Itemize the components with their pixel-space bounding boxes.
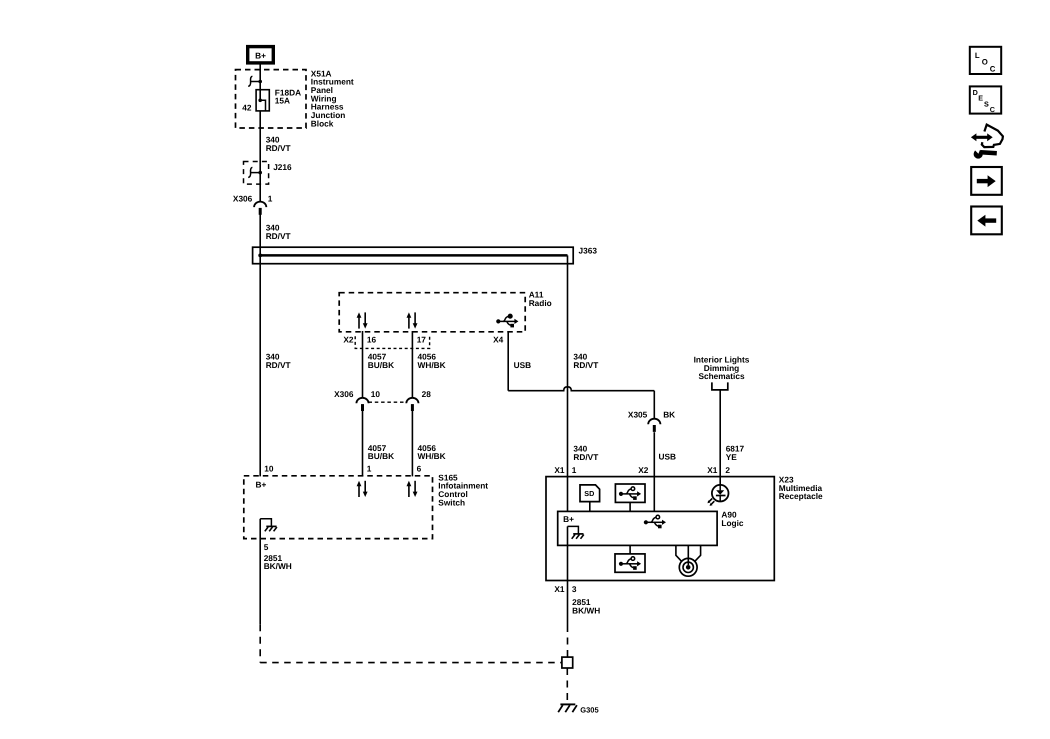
svg-text:5: 5 [264, 542, 269, 552]
svg-text:X305: X305 [628, 410, 648, 420]
svg-text:B+: B+ [255, 50, 266, 60]
wire J363 to X23 pin X1-1 [567, 255, 569, 511]
svg-text:X306: X306 [233, 193, 253, 203]
A11 data arrows pin 16 [357, 312, 368, 328]
svg-text:O: O [982, 58, 988, 67]
svg-text:1: 1 [268, 193, 273, 203]
A90 ground hook [568, 526, 579, 533]
svg-text:S: S [984, 99, 989, 108]
svg-text:J216: J216 [273, 162, 292, 172]
A11 data arrows pin 17 [407, 312, 418, 328]
svg-text:A11Radio: A11Radio [529, 290, 552, 308]
svg-text:4057BU/BK: 4057BU/BK [368, 352, 394, 370]
wire dimming to LED [719, 390, 721, 485]
svg-text:J363: J363 [579, 246, 598, 256]
icon connector tool [971, 125, 1003, 159]
splice J216 dashed box [244, 162, 269, 185]
svg-text:USB: USB [659, 452, 677, 462]
icon arrow left box [971, 207, 1002, 235]
wire A11-16 to X306-10 [362, 331, 364, 398]
fuse clip terminal [248, 76, 262, 86]
infotainment switch S165 dashed box [244, 476, 433, 539]
wire USB horizontal with hop over 340 wire [508, 387, 654, 391]
svg-text:F18DA15A: F18DA15A [275, 87, 301, 105]
svg-text:2851BK/WH: 2851BK/WH [264, 553, 292, 571]
svg-text:X2: X2 [343, 335, 354, 345]
fuse F18DA 15A [256, 90, 269, 111]
connector X306 dashed link [369, 401, 408, 403]
svg-text:E: E [978, 94, 983, 103]
connector X306 pin 1 [254, 202, 266, 215]
wire X305 to X23 pin X2 [653, 432, 655, 511]
LED indicator [708, 485, 729, 506]
svg-text:6817YE: 6817YE [726, 444, 745, 462]
svg-text:340RD/VT: 340RD/VT [266, 223, 291, 241]
svg-text:340RD/VT: 340RD/VT [266, 352, 291, 370]
svg-text:D: D [973, 88, 978, 97]
svg-text:USB: USB [514, 360, 532, 370]
splice J216 clip [248, 167, 262, 177]
svg-text:S165InfotainmentControlSwitch: S165InfotainmentControlSwitch [438, 472, 488, 507]
svg-text:2851BK/WH: 2851BK/WH [572, 597, 600, 615]
svg-text:B+: B+ [256, 479, 267, 489]
radio A11 dashed box [339, 293, 525, 332]
wire X306-1 to J363 [259, 214, 261, 476]
svg-text:2: 2 [725, 465, 730, 475]
connector X306 pin 28 [406, 398, 418, 411]
wire X306-28 to S165 pin 6 [411, 411, 413, 477]
USB port top [615, 484, 645, 511]
svg-text:X1: X1 [707, 465, 718, 475]
svg-text:17: 17 [417, 335, 427, 345]
svg-text:4057BU/BK: 4057BU/BK [368, 443, 394, 461]
wire B+ to fuse F18DA [259, 64, 261, 101]
icon LOC box [970, 47, 1001, 74]
svg-text:X1: X1 [554, 465, 565, 475]
svg-text:4056WH/BK: 4056WH/BK [418, 443, 446, 461]
svg-text:1: 1 [367, 464, 372, 474]
USB port bottom [615, 545, 645, 572]
junction block X51A dashed box [236, 70, 307, 128]
icon DESC box [970, 86, 1001, 114]
connector X306 pin 10 [356, 398, 368, 411]
svg-text:4056WH/BK: 4056WH/BK [418, 352, 446, 370]
wire X1-3 dashed to splice square [567, 625, 569, 657]
wire USB down to X305 [653, 391, 655, 420]
multimedia receptacle X23 box [546, 477, 774, 581]
svg-text:340RD/VT: 340RD/VT [573, 444, 598, 462]
S165 chassis ground [265, 526, 277, 531]
svg-text:X4: X4 [493, 335, 504, 345]
icon arrow right box [971, 167, 1002, 195]
svg-text:C: C [990, 64, 996, 73]
S165 ground hook [260, 519, 271, 526]
svg-text:A90Logic: A90Logic [721, 510, 744, 528]
S165 data arrows pin 6 [407, 481, 418, 497]
ground G305 [558, 704, 577, 712]
svg-text:X1: X1 [554, 584, 565, 594]
svg-text:1: 1 [572, 465, 577, 475]
svg-text:3: 3 [572, 584, 577, 594]
aux jack [676, 545, 701, 576]
wire fuse to connector X306 pin 1 [259, 111, 261, 202]
svg-text:10: 10 [264, 464, 274, 474]
svg-text:C: C [990, 105, 995, 114]
splice square [562, 657, 573, 668]
wire A90 ground to pin X1-3 [567, 526, 569, 625]
svg-text:BK: BK [663, 410, 675, 420]
A90 USB symbol [644, 515, 666, 528]
B+ battery feed terminal [248, 47, 274, 63]
wire A11-X4 USB down [507, 331, 509, 391]
svg-text:340RD/VT: 340RD/VT [573, 352, 598, 370]
wire X306-10 to S165 pin 1 [362, 411, 364, 477]
svg-text:L: L [975, 51, 980, 60]
wire dashed horizontal to splice [260, 662, 562, 664]
svg-text:X51AInstrumentPanelWiringHarne: X51AInstrumentPanelWiringHarnessJunction… [311, 68, 354, 128]
S165 data arrows pin 1 [357, 481, 368, 497]
off-page bracket [712, 382, 728, 390]
svg-text:Interior LightsDimmingSchemati: Interior LightsDimmingSchematics [694, 355, 750, 382]
svg-text:SD: SD [584, 489, 594, 498]
svg-text:G305: G305 [580, 705, 598, 714]
svg-text:B+: B+ [563, 514, 574, 524]
svg-text:16: 16 [367, 335, 377, 345]
splice pack J363 bus bar [260, 254, 567, 257]
junction dot J363 left [258, 254, 262, 258]
svg-text:X2: X2 [638, 465, 649, 475]
A11 USB symbol [496, 314, 518, 327]
svg-text:42: 42 [242, 102, 252, 112]
wire splice to G305 dashed [566, 668, 568, 701]
wire A11-17 to X306-28 [411, 331, 413, 398]
splice pack J363 box [253, 247, 574, 264]
connector X305 [648, 419, 660, 432]
logic module A90 box [558, 511, 717, 545]
A90 chassis ground [572, 534, 584, 539]
wire pin 5 dashed down [259, 624, 261, 662]
svg-text:X306: X306 [334, 389, 354, 399]
svg-text:28: 28 [422, 389, 432, 399]
wire S165 ground to pin 5 [259, 519, 261, 624]
SD card slot [580, 485, 600, 512]
svg-text:X23MultimediaReceptacle: X23MultimediaReceptacle [779, 475, 823, 502]
svg-text:6: 6 [417, 464, 422, 474]
svg-text:340RD/VT: 340RD/VT [266, 135, 291, 153]
svg-text:10: 10 [371, 389, 381, 399]
connector X2 dashed outline [355, 336, 429, 348]
